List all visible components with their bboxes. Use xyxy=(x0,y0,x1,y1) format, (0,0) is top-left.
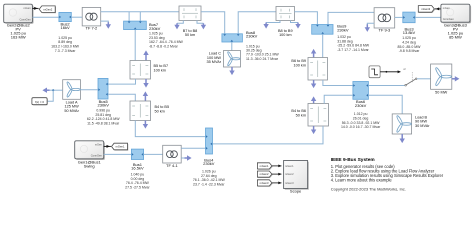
ground left of B7 to B8 xyxy=(174,23,179,29)
label B4 to B5 xyxy=(155,105,170,113)
wire TF 9-3 to Bus3 xyxy=(395,16,403,18)
svg-text:TF 4-1: TF 4-1 xyxy=(166,163,179,168)
label Load B xyxy=(415,115,430,128)
svg-text:mGen3: mGen3 xyxy=(285,181,294,185)
ground above B5 to B7 xyxy=(143,50,148,60)
step source xyxy=(369,66,380,78)
svg-text:13.8kV: 13.8kV xyxy=(403,30,416,35)
label Bus7 xyxy=(149,22,161,31)
signal wire mGen2 xyxy=(32,7,38,10)
svg-text:230kV: 230kV xyxy=(149,26,161,31)
wire Gen1 to Bus1 xyxy=(104,153,132,155)
svg-text:TF 9-3: TF 9-3 xyxy=(379,28,392,33)
svg-text:11.3 -36.0 24.7 Mvar: 11.3 -36.0 24.7 Mvar xyxy=(246,57,279,61)
label Load C xyxy=(207,52,222,65)
svg-text:mGen2: mGen2 xyxy=(260,172,269,176)
wire TF 7-2 ground tap xyxy=(101,21,109,22)
bus Bus3 xyxy=(403,12,415,23)
svg-text:23.7 -1.4 -22.3 Mvar: 23.7 -1.4 -22.3 Mvar xyxy=(193,183,225,187)
wire B8 to B9 to Bus9 xyxy=(295,12,318,25)
wire Bus6 to breaker xyxy=(368,85,404,87)
ground left of Load A xyxy=(42,88,49,93)
svg-text:30 MVAr: 30 MVAr xyxy=(415,124,430,128)
transformer TF 7-2 xyxy=(82,7,101,26)
svg-text:100 km: 100 km xyxy=(279,33,291,37)
from tag mGen3 xyxy=(257,180,272,187)
wire drop to Bus7 left xyxy=(128,12,130,21)
svg-text:Swing: Swing xyxy=(84,164,95,169)
label B6 to B9 xyxy=(291,59,306,67)
svg-text:230kV: 230kV xyxy=(203,161,215,166)
wire Bus5 to B4 to B5 xyxy=(108,94,135,101)
svg-text:mGen1: mGen1 xyxy=(260,164,269,168)
svg-text:100 km: 100 km xyxy=(154,68,166,72)
svg-text:Copyright 2022-2023 The MathWo: Copyright 2022-2023 The MathWorks, Inc. xyxy=(331,187,406,192)
transmission line B4 to B6 xyxy=(308,104,329,127)
svg-text:100 km: 100 km xyxy=(294,63,306,67)
wire B5 to B7 to Bus5 xyxy=(108,79,136,84)
wire B4 to B6 to Bus4 xyxy=(213,126,324,144)
goto tag mGen2 xyxy=(39,6,56,13)
wire Bus1 to TF 4-1 xyxy=(144,153,163,155)
wire TF 4-1 to Bus4 xyxy=(181,147,205,149)
svg-text:mGen2: mGen2 xyxy=(43,7,52,11)
transmission line B8 to B9 xyxy=(276,7,295,21)
svg-text:f(x) = 0: f(x) = 0 xyxy=(35,100,44,104)
bus Bus2 xyxy=(59,12,71,21)
signal wire to scope 3 xyxy=(272,182,282,185)
transmission line B4 to B5 xyxy=(130,101,151,121)
solver configuration f(x)=0 xyxy=(32,98,48,106)
label Bus5 values xyxy=(87,109,120,126)
signal wire to scope 2 xyxy=(272,173,282,176)
wire Bus3 to Gen3 xyxy=(415,16,441,18)
wire TF 4-1 ground tap xyxy=(181,157,185,159)
label Gen3 xyxy=(444,23,468,40)
annotation IEEE 9-Bus System xyxy=(331,157,444,192)
label Gen1 xyxy=(78,160,102,169)
ground below B5 to B7 xyxy=(143,79,148,88)
svg-text:-3.7 17.7 -14.1 Mvar: -3.7 17.7 -14.1 Mvar xyxy=(337,48,369,52)
svg-text:ConnGen: ConnGen xyxy=(443,17,455,21)
generator Gen2 xyxy=(4,4,34,24)
transmission line B7 to B8 xyxy=(179,6,201,21)
svg-text:50 km: 50 km xyxy=(185,33,195,37)
svg-text:mGen: mGen xyxy=(443,6,451,10)
ground at TF 4-1 xyxy=(185,155,192,160)
svg-text:230kV: 230kV xyxy=(98,103,110,108)
svg-text:mGen1: mGen1 xyxy=(285,164,294,168)
signal wire breaker control xyxy=(380,70,401,73)
ground below B4 to B5 xyxy=(143,121,148,129)
load Load C xyxy=(224,51,241,68)
svg-text:11.5 -49.8 38.1 Mvar: 11.5 -49.8 38.1 Mvar xyxy=(87,122,120,126)
label Gen2 xyxy=(7,23,31,40)
goto tag mGen3 xyxy=(418,6,435,13)
breaker switch xyxy=(405,78,417,86)
wire B8 to B9 left ground xyxy=(266,21,280,23)
wire TF 9-3 ground tap xyxy=(367,23,374,24)
svg-text:ConnGen: ConnGen xyxy=(91,154,103,158)
wire drop to Bus7 right xyxy=(139,12,141,21)
ground right of B8 to B9 xyxy=(295,23,300,29)
signal wire mGen1 xyxy=(104,145,111,148)
wire breaker to 50 MW load xyxy=(417,78,431,80)
wire solver to junction xyxy=(47,90,53,101)
svg-text:mGen1: mGen1 xyxy=(116,145,125,149)
wire Bus2 to TF 7-2 xyxy=(71,16,82,18)
label B7 to B8 xyxy=(183,29,198,37)
svg-text:163 MW: 163 MW xyxy=(11,35,26,40)
svg-text:1.025 pu: 1.025 pu xyxy=(58,36,72,40)
svg-text:230kV: 230kV xyxy=(246,34,258,39)
svg-text:16kV: 16kV xyxy=(61,25,70,30)
svg-text:163.2 /-163.0 MW: 163.2 /-163.0 MW xyxy=(51,45,80,49)
svg-text:-9.8 9.8 Mvar: -9.8 9.8 Mvar xyxy=(399,49,420,53)
bus Bus8 xyxy=(222,34,243,42)
from tag mGen1 xyxy=(257,163,272,170)
from tag mGen2 xyxy=(257,171,272,178)
svg-text:230kV: 230kV xyxy=(355,103,367,108)
bus Bus6 xyxy=(353,82,369,100)
bus Bus5 xyxy=(98,78,108,99)
ground above B4 to B6 xyxy=(311,96,316,103)
ground below B6 to B9 xyxy=(311,80,316,88)
ground at TF 9-3 xyxy=(365,24,370,32)
label B8 to B9 xyxy=(278,29,293,37)
label Bus3 values xyxy=(398,36,422,53)
svg-text:IEEE 9-Bus System: IEEE 9-Bus System xyxy=(331,157,375,163)
wire Bus6 to B4 to B6 xyxy=(324,95,353,103)
label Bus4 xyxy=(203,158,215,167)
wire Bus8 to Load C xyxy=(231,42,233,51)
svg-text:Scope: Scope xyxy=(290,189,302,194)
wire Bus9 to TF 9-3 xyxy=(328,12,374,24)
label Bus2 xyxy=(61,22,71,31)
ground at TF 7-2 xyxy=(106,22,111,29)
wire B7 to B8 to Bus8 xyxy=(201,12,225,34)
ground right of B7 to B8 xyxy=(201,23,206,29)
label Bus6 values xyxy=(341,112,381,129)
label B5 to B7 xyxy=(154,64,169,72)
ground above B4 to B5 xyxy=(143,91,148,101)
wire Gen2 to Bus2 xyxy=(32,16,59,18)
svg-text:mGen3: mGen3 xyxy=(260,181,269,185)
svg-text:7.3 -7.3 Mvar: 7.3 -7.3 Mvar xyxy=(55,49,76,53)
scope xyxy=(284,161,309,190)
svg-text:230kV: 230kV xyxy=(337,27,349,32)
bus Bus4 xyxy=(206,128,213,154)
svg-text:50 km: 50 km xyxy=(296,113,306,117)
ground below B4 to B6 xyxy=(311,126,316,134)
label 50 MW xyxy=(435,90,447,94)
signal wire to scope 1 xyxy=(272,165,282,168)
ground left of B8 to B9 xyxy=(263,23,268,29)
label TF 7-2 xyxy=(86,26,99,31)
load 50 MW xyxy=(431,64,452,89)
svg-text:16.5kV: 16.5kV xyxy=(131,166,144,171)
label Bus1 values xyxy=(125,173,150,190)
svg-text:ConnGen: ConnGen xyxy=(19,18,31,22)
label Bus1 xyxy=(131,162,144,171)
bus Bus7 xyxy=(124,21,147,30)
svg-text:mGen: mGen xyxy=(24,6,32,10)
label Bus8 xyxy=(246,30,258,39)
label Bus7 values xyxy=(149,32,184,49)
transmission line B6 to B9 xyxy=(308,58,328,81)
svg-text:27.5 -27.5 Mvar: 27.5 -27.5 Mvar xyxy=(125,185,150,189)
svg-text:mGen: mGen xyxy=(95,142,103,146)
label TF 4-1 xyxy=(166,163,179,168)
transmission line B5 to B7 xyxy=(130,61,151,80)
svg-text:14.0 -0.0 16.7 -30.7 Mvar: 14.0 -0.0 16.7 -30.7 Mvar xyxy=(341,125,381,129)
label Bus5 xyxy=(98,99,110,108)
label Bus8 values xyxy=(246,44,279,61)
bus Bus1 xyxy=(131,149,143,159)
wire B4 to B5 to Bus4 xyxy=(135,121,205,137)
svg-text:50 MVAr: 50 MVAr xyxy=(64,109,79,113)
svg-text:85 MW: 85 MW xyxy=(449,35,462,40)
wire B8 to B9 right ground xyxy=(291,21,299,23)
generator Gen1 xyxy=(75,141,105,160)
wire B7 to B8 left ground xyxy=(177,21,183,24)
wire Load A reference xyxy=(49,89,63,91)
generator Gen3 xyxy=(441,4,471,23)
label Bus9 xyxy=(337,24,349,33)
junction node xyxy=(52,89,54,91)
ground under Load C xyxy=(229,67,234,75)
label TF 9-3 xyxy=(379,28,392,33)
svg-text:mGen2: mGen2 xyxy=(285,172,294,176)
wire Bus6 to Load B xyxy=(368,95,402,114)
signal wire mGen3 xyxy=(435,7,441,10)
bus Bus9 xyxy=(312,25,333,35)
ground above B6 to B9 xyxy=(311,49,316,58)
label Bus6 xyxy=(355,99,367,108)
svg-text:4. Learn more about this examp: 4. Learn more about this example xyxy=(331,178,393,183)
label B4 to B6 xyxy=(291,109,306,117)
svg-text:TF 7-2: TF 7-2 xyxy=(86,26,99,31)
svg-text:8.89 deg: 8.89 deg xyxy=(58,40,72,44)
label Bus9 values xyxy=(337,35,370,52)
transformer TF 4-1 xyxy=(163,145,182,163)
wire Load A to Bus5 xyxy=(81,89,99,91)
label Bus2 values xyxy=(51,36,80,53)
goto tag mGen1 xyxy=(112,143,129,150)
label Bus3 xyxy=(403,26,416,35)
svg-text:50 MW: 50 MW xyxy=(435,90,447,94)
wire Bus8 to B8 to B9 xyxy=(238,12,276,34)
dashed control line to switch xyxy=(403,69,412,83)
label Scope xyxy=(290,189,302,194)
load Load A xyxy=(63,80,81,100)
svg-text:mGen3: mGen3 xyxy=(421,7,430,11)
transformer TF 9-3 xyxy=(374,8,395,28)
svg-text:-8.7 -8.8 -0.2 Mvar: -8.7 -8.8 -0.2 Mvar xyxy=(149,45,179,49)
wire Bus7 to B5 to B7 xyxy=(134,30,136,61)
label Load A xyxy=(64,100,79,113)
ground under Load B xyxy=(400,134,405,143)
svg-text:35 MVAr: 35 MVAr xyxy=(207,60,222,64)
load Load B xyxy=(392,114,411,134)
svg-text:50 km: 50 km xyxy=(155,109,165,113)
wire B7 to B8 right ground xyxy=(197,21,203,24)
wire TF 7-2 to B7 to B8 line xyxy=(101,11,179,13)
label Bus4 values xyxy=(193,170,226,187)
wire Bus9 to B6 to B9 xyxy=(322,34,324,57)
ground right of 50 MW load xyxy=(452,76,460,81)
wire B6 to B9 to Bus6 xyxy=(323,80,353,86)
